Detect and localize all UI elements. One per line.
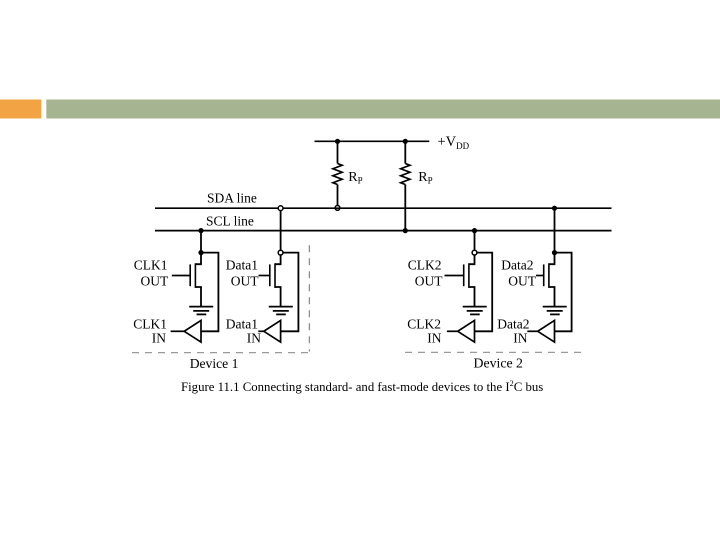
wire +VDD rail [315, 140, 430, 142]
wire RP1 bottom lead [337, 185, 339, 206]
svg-text:OUT: OUT [415, 274, 443, 289]
transistor Q2 channel bar [274, 263, 276, 288]
transistor Q3 channel bar [468, 263, 470, 288]
wire CLK2 feedback branch [475, 253, 493, 332]
svg-text:OUT: OUT [508, 274, 536, 289]
svg-text:Data1: Data1 [226, 317, 258, 332]
node open circle RP1/SDA [335, 206, 340, 211]
node junction dot Data2 branch [552, 250, 557, 255]
buffer U2 Data1 IN [264, 320, 281, 342]
svg-text:IN: IN [247, 331, 261, 346]
node junction dot Data2/SDA [552, 206, 557, 211]
svg-text:IN: IN [513, 331, 527, 346]
node junction dot CLK1 branch [198, 250, 203, 255]
transistor Q1 source lead [195, 287, 201, 307]
wire Data1 gate lead [259, 275, 270, 277]
ground CLK1 [189, 307, 213, 315]
wire Data2 feedback branch [555, 253, 572, 332]
node junction dot VDD/RP2 [403, 139, 408, 144]
wire CLK1 feedback branch [201, 253, 218, 332]
device 1 boundary dashed right edge [308, 245, 310, 351]
wire SCL bus line [155, 230, 612, 232]
slide header bar (sage green) [46, 100, 720, 119]
transistor Q4 source lead [549, 287, 555, 307]
transistor Q2 source lead [275, 287, 281, 307]
transistor Q1 gate bar [189, 264, 191, 286]
wire SDA bus line [155, 207, 612, 209]
node junction dot CLK2/SCL [472, 228, 477, 233]
svg-text:Device 1: Device 1 [190, 356, 239, 371]
svg-text:Data2: Data2 [501, 257, 533, 272]
transistor Q2 gate bar [269, 264, 271, 286]
slide accent block (orange) [0, 100, 41, 119]
svg-text:Figure 11.1 Connecting standar: Figure 11.1 Connecting standard- and fas… [181, 379, 543, 394]
svg-text:RP: RP [348, 170, 362, 186]
transistor Q3 source lead [469, 287, 475, 307]
transistor Q3 gate bar [463, 264, 465, 286]
ground Data1 [269, 307, 293, 315]
wire Data2 drain to SDA crossing SCL [554, 208, 556, 252]
svg-text:Data1: Data1 [226, 257, 258, 272]
wire CLK1 drain to SCL [200, 231, 202, 253]
transistor Q3 CLK2 drain lead [469, 255, 475, 264]
resistor RP1 [333, 164, 342, 185]
svg-text:CLK1: CLK1 [134, 257, 168, 272]
svg-text:IN: IN [427, 331, 441, 346]
svg-text:IN: IN [152, 331, 166, 346]
svg-text:OUT: OUT [231, 274, 259, 289]
svg-text:Data2: Data2 [497, 317, 529, 332]
resistor RP2 [401, 164, 410, 185]
svg-text:+VDD: +VDD [438, 134, 470, 151]
wire CLK2 gate lead [445, 275, 464, 277]
transistor Q2 Data1 drain lead [275, 255, 281, 264]
wire Data1 IN lead [258, 330, 264, 332]
transistor Q4 channel bar [548, 263, 550, 288]
wire RP1 top lead [337, 141, 339, 163]
transistor Q4 gate bar [543, 264, 545, 286]
wire CLK2 IN lead [447, 330, 458, 332]
wire CLK1 gate lead [172, 275, 190, 277]
node junction dot VDD/RP1 [335, 139, 340, 144]
node open circle Data1/SDA [278, 206, 283, 211]
wire Data1 feedback branch [281, 253, 299, 332]
svg-text:Device 2: Device 2 [474, 356, 524, 371]
wire Data2 IN lead [527, 330, 537, 332]
wire CLK1 IN lead [171, 330, 185, 332]
transistor Q1 channel bar [194, 263, 196, 288]
node junction dot RP2/SCL [403, 228, 408, 233]
wire CLK2 drain to SCL [474, 231, 476, 253]
svg-text:SCL line: SCL line [206, 213, 254, 228]
svg-text:CLK2: CLK2 [407, 317, 441, 332]
buffer U1 CLK1 IN [184, 320, 201, 342]
svg-text:OUT: OUT [141, 274, 169, 289]
buffer U3 CLK2 IN [458, 320, 475, 342]
ground Data2 [543, 307, 567, 315]
node junction dot CLK1/SCL [198, 228, 203, 233]
node open circle Data1 branch [278, 250, 283, 255]
ground CLK2 [463, 307, 487, 315]
svg-text:SDA line: SDA line [207, 191, 257, 206]
svg-text:RP: RP [418, 170, 432, 186]
wire Data1 drain to SDA crossing SCL [280, 211, 282, 253]
device 2 boundary dashed bottom edge [405, 351, 583, 353]
svg-text:CLK1: CLK1 [133, 317, 167, 332]
svg-text:CLK2: CLK2 [408, 257, 442, 272]
transistor Q4 Data2 drain lead [549, 253, 555, 265]
device 1 boundary dashed bottom edge [132, 352, 309, 354]
wire Data2 gate lead [536, 275, 544, 277]
node open circle CLK2 branch [472, 250, 477, 255]
buffer U4 Data2 IN [538, 320, 555, 342]
wire RP2 bottom lead crossing SDA [404, 185, 406, 231]
wire RP2 top lead [404, 141, 406, 163]
transistor Q1 CLK1 drain lead [195, 253, 201, 265]
